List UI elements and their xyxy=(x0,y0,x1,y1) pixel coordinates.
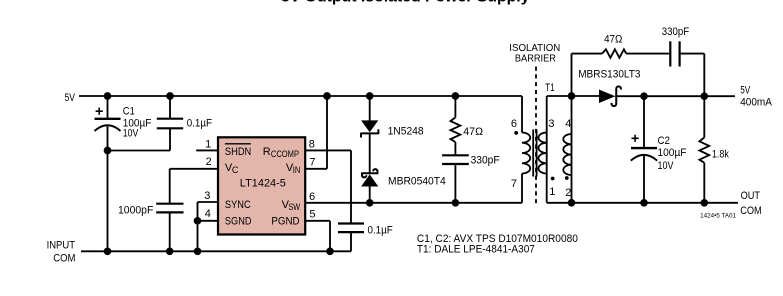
wire: snubber top line xyxy=(572,53,705,55)
junction dot 0.1uF top xyxy=(167,93,173,99)
svg-text:7: 7 xyxy=(309,157,315,169)
svg-text:7: 7 xyxy=(511,178,517,190)
secondary snubber riser right xyxy=(703,54,705,97)
resistor 47ohm primary snubber xyxy=(454,96,456,117)
svg-text:LT1424-5: LT1424-5 xyxy=(240,178,286,190)
capacitor C1 100uF 10V electrolytic xyxy=(107,96,109,118)
junction dot output at C2 xyxy=(641,93,647,99)
pin 4 stub SGND xyxy=(198,220,219,222)
capacitor 0.1uF on RCCOMP xyxy=(338,222,364,224)
svg-text:47Ω: 47Ω xyxy=(463,126,483,138)
svg-text:1: 1 xyxy=(549,186,555,198)
svg-text:SHDN: SHDN xyxy=(225,146,251,158)
svg-text:MBR0540T4: MBR0540T4 xyxy=(388,176,446,188)
capacitor 0.1uF input bypass xyxy=(169,96,171,118)
svg-text:5V: 5V xyxy=(740,84,750,96)
junction dot C1 bottom at SHDN wire xyxy=(105,148,111,154)
op-amp U1 LT1424-5 body xyxy=(218,137,305,234)
schottky diode MBRS130LT3 output rectifier xyxy=(600,90,615,102)
svg-text:R: R xyxy=(263,146,271,158)
pin 2 stub VC xyxy=(170,168,218,170)
svg-text:5V Output Isolated Power Suppl: 5V Output Isolated Power Supply xyxy=(281,0,530,5)
svg-text:6: 6 xyxy=(309,191,315,203)
node INPUT COM label xyxy=(47,239,76,264)
wire: VSW line from pin 6 to transformer primary bottom xyxy=(305,202,522,204)
svg-text:0.1µF: 0.1µF xyxy=(187,118,213,130)
svg-text:2: 2 xyxy=(565,187,571,199)
isolation barrier dashed line xyxy=(535,67,537,207)
svg-text:SW: SW xyxy=(289,202,301,212)
pin 3 stub SYNC xyxy=(198,201,219,203)
junction dot output at 1.8k / snubber xyxy=(701,93,707,99)
svg-text:3: 3 xyxy=(548,118,554,130)
svg-text:COM: COM xyxy=(740,205,762,217)
svg-text:330pF: 330pF xyxy=(662,26,690,38)
SHDN overline xyxy=(225,143,251,145)
node OUT COM labels xyxy=(740,190,762,217)
svg-text:47Ω: 47Ω xyxy=(604,34,622,46)
junction dot snubber at 5V rail xyxy=(453,93,459,99)
svg-text:1000pF: 1000pF xyxy=(118,205,154,217)
junction dot OUT COM at winding B xyxy=(569,200,575,206)
pin 6 stub VSW (joins VSW line) xyxy=(309,191,315,203)
junction dot C1 at INPUT COM rail xyxy=(105,248,111,254)
svg-text:SYNC: SYNC xyxy=(225,199,251,211)
svg-text:10V: 10V xyxy=(123,128,139,140)
svg-text:C: C xyxy=(232,165,239,175)
svg-text:6: 6 xyxy=(511,118,517,130)
wire: 5V input top rail xyxy=(79,95,522,97)
svg-text:3: 3 xyxy=(204,190,210,202)
wire: SYNC/SGND ground riser xyxy=(197,202,199,251)
T1 core lines xyxy=(533,130,536,177)
resistor 47ohm secondary snubber xyxy=(602,49,626,58)
svg-text:ISOLATION: ISOLATION xyxy=(509,43,560,54)
wire: INPUT COM bottom rail xyxy=(81,250,351,252)
svg-text:8: 8 xyxy=(309,139,315,151)
wire: pin 8 riser down to 0.1uF xyxy=(350,150,352,223)
svg-text:10V: 10V xyxy=(658,160,675,172)
resistor 1.8k load xyxy=(703,96,705,137)
svg-text:COM: COM xyxy=(53,252,75,264)
junction dot 1000pF at rail xyxy=(167,248,173,254)
junction dot C1 top xyxy=(105,93,111,99)
svg-text:5: 5 xyxy=(309,208,315,220)
wire: transformer primary bottom drop xyxy=(521,174,523,203)
svg-text:4: 4 xyxy=(205,208,211,220)
svg-text:IN: IN xyxy=(293,165,301,175)
T1 primary winding (pins 6/7) xyxy=(522,133,530,174)
junction dot diode chain at 5V rail xyxy=(367,93,373,99)
figure tag 1424-5 TA01 xyxy=(700,213,736,220)
svg-text:5V: 5V xyxy=(65,92,76,104)
svg-text:1N5248: 1N5248 xyxy=(388,125,424,137)
svg-text:BARRIER: BARRIER xyxy=(515,54,556,65)
junction dot SGND joins riser xyxy=(195,218,201,224)
capacitor C2 100uF 10V electrolytic xyxy=(643,96,645,147)
T1 primary phase dot xyxy=(514,131,518,135)
svg-text:0.1µF: 0.1µF xyxy=(368,225,394,237)
svg-text:T1: DALE LPE-4841-A307: T1: DALE LPE-4841-A307 xyxy=(417,243,535,255)
title: 5V Output Isolated Power Supply (cut off at top) xyxy=(281,0,530,5)
diode chain riser xyxy=(369,96,371,203)
wire: OUT COM rail xyxy=(547,202,738,204)
schottky diode MBR0540T4 (cathode up) xyxy=(362,169,378,177)
capacitor 1000pF on VC xyxy=(169,169,171,204)
svg-text:CCOMP: CCOMP xyxy=(271,149,299,159)
junction dot VIN riser at rail xyxy=(324,93,330,99)
svg-text:100µF: 100µF xyxy=(658,147,687,159)
svg-text:2: 2 xyxy=(206,156,212,168)
T1 secondary winding B (pins 4/2) xyxy=(571,96,573,203)
capacitor 330pF secondary snubber xyxy=(669,41,671,66)
note: component sourcing xyxy=(417,233,578,256)
svg-text:OUT: OUT xyxy=(741,190,761,202)
wire: VIN riser from 5V rail to pins 8,7 xyxy=(326,96,328,169)
svg-text:1: 1 xyxy=(205,138,211,150)
node 5V 400mA output labels xyxy=(740,84,772,108)
svg-text:PGND: PGND xyxy=(271,215,299,227)
pin 8 stub RCCOMP xyxy=(305,149,351,151)
svg-text:C2: C2 xyxy=(658,135,671,147)
junction dot snubber at VSW line xyxy=(453,200,459,206)
junction dot riser at rail xyxy=(195,248,201,254)
secondary snubber riser left xyxy=(571,54,573,96)
svg-text:T1: T1 xyxy=(545,82,555,94)
svg-text:330pF: 330pF xyxy=(471,155,500,167)
wire: secondary feed line xyxy=(547,95,600,97)
wire: PGND riser xyxy=(329,221,331,251)
zener diode 1N5248 (cathode down) xyxy=(362,121,377,131)
svg-text:1.8k: 1.8k xyxy=(712,149,729,161)
svg-text:4: 4 xyxy=(565,118,571,130)
svg-text:SGND: SGND xyxy=(225,215,252,227)
pin 7 stub VIN xyxy=(305,168,327,170)
wire: caps bottom tie to C1 xyxy=(108,150,171,152)
junction dot feed at winding B / snubber riser xyxy=(569,93,575,99)
svg-text:1424•5 TA01: 1424•5 TA01 xyxy=(700,213,736,220)
svg-text:MBRS130LT3: MBRS130LT3 xyxy=(578,68,640,80)
transformer T1 xyxy=(545,82,555,94)
pin 5 stub PGND xyxy=(305,220,330,222)
svg-text:INPUT: INPUT xyxy=(47,239,76,251)
svg-text:C1: C1 xyxy=(123,106,135,118)
junction dot 1.8k at OUT COM xyxy=(701,200,707,206)
pin 1 stub SHDN xyxy=(196,149,218,151)
node 5V input label xyxy=(65,92,76,104)
svg-text:400mA: 400mA xyxy=(740,96,772,108)
wire: transformer primary top drop xyxy=(521,96,523,133)
capacitor 330pF primary snubber xyxy=(442,154,469,156)
T1 secondary winding A (pins 3/1) xyxy=(546,96,548,203)
junction dot PGND at rail xyxy=(327,248,333,254)
junction dot diode chain at VSW line xyxy=(367,200,373,206)
junction dot C2 at OUT COM xyxy=(641,200,647,206)
